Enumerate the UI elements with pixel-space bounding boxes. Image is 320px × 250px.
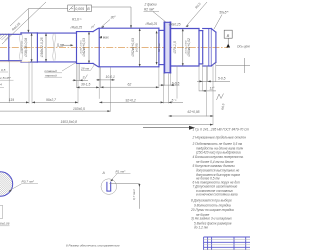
section S4 top/bottom: [77, 31, 94, 33]
svg-text:28 пм: 28 пм: [80, 66, 90, 70]
svg-text:плавный: плавный: [45, 69, 58, 73]
collar left face: [163, 22, 165, 72]
leader from frame right to S5 top: [92, 6, 132, 8]
svg-text:1503,5±0,8: 1503,5±0,8: [61, 120, 78, 124]
section S5 top/bottom: [99, 27, 159, 29]
svg-text:+0,032 +0,015: +0,032 +0,015: [80, 40, 82, 55]
svg-text:∅38,08-0,08: ∅38,08-0,08: [24, 38, 28, 57]
svg-text:R0,7 пм*: R0,7 пм*: [22, 180, 35, 184]
center hole line at right face: [216, 65, 250, 67]
svg-text:90х2,7: 90х2,7: [46, 98, 56, 102]
svg-text:∅70-1,5: ∅70-1,5: [173, 41, 177, 54]
blue outline of detail B: [0, 172, 13, 196]
svg-text:0,5: 0,5: [1, 68, 6, 72]
svg-text:-0,080 -0,157: -0,080 -0,157: [22, 40, 24, 54]
svg-text:√Ra0,25: √Ra0,25: [70, 25, 82, 29]
svg-text:8 Допускается при выборе: 8 Допускается при выборе: [191, 199, 232, 203]
svg-text:4: 4: [0, 83, 2, 87]
datum B box: [224, 30, 232, 38]
left-edge cut labels: [0, 68, 12, 87]
svg-text:(+0,030): (+0,030): [135, 43, 138, 52]
svg-text:10-0,1: 10-0,1: [106, 75, 116, 79]
centerline (axis): [0, 47, 228, 49]
svg-text:0,005: 0,005: [75, 7, 84, 11]
svg-text:92+0,2: 92+0,2: [126, 98, 136, 102]
svg-text:9 Волнистость порядка: 9 Волнистость порядка: [194, 203, 231, 207]
note 5mm inside S3 with arrow: [57, 43, 74, 47]
svg-text:4 Большая конусная поверхность: 4 Большая конусная поверхность: [193, 155, 244, 159]
detail B: hatched section blob bottom-left: [0, 154, 16, 213]
end chamfer top: [211, 29, 216, 33]
tolerance frame 0,005 B: [68, 5, 92, 11]
collar fill: [164, 22, 170, 72]
svg-text:∅50к6+0,02: ∅50к6+0,02: [187, 38, 191, 57]
shaft outline: [0, 22, 216, 72]
svg-text:Ось цент: Ось цент: [237, 44, 250, 48]
chamfer inner vertical at 211.2: [210, 29, 212, 67]
note 2 max at ramp: [99, 35, 109, 39]
thread runout wavy lines in S2: [20, 33, 23, 61]
section S1 left stub top/bottom: [0, 33, 21, 35]
groove profile blue: [106, 182, 111, 191]
right end face: [215, 32, 217, 62]
section S3 top/bottom: [37, 32, 76, 34]
break wavy lines in S3: [53, 33, 56, 60]
section S2 thread top/bottom: [21, 32, 37, 34]
detail A: circle with groove profile: [101, 179, 117, 195]
svg-text:119: 119: [9, 98, 14, 102]
svg-text:+0,018 +0,002: +0,018 +0,002: [185, 40, 187, 55]
technical requirements text block: [190, 127, 249, 229]
S3/S4 shoulder vertical at 76.5: [76, 32, 78, 64]
roughness zigzag near groove: [217, 94, 224, 101]
tan under-edge line left: [0, 61, 30, 63]
vertical at 208.8: [208, 29, 210, 67]
extension lines below shaft: [29, 61, 216, 125]
dia dim S2: [31, 34, 33, 62]
S1/S2 vertical at 9.5: [8, 34, 10, 60]
svg-text:В: В: [227, 33, 230, 38]
dia dim S6 groove: [156, 33, 158, 65]
svg-text:0,7 пах¹: 0,7 пах¹: [132, 189, 136, 200]
S7/groove vertical at 199: [198, 29, 200, 67]
svg-text:√Ra0,25: √Ra0,25: [169, 23, 181, 27]
end chamfer bottom: [211, 62, 216, 66]
svg-text:2 Неуказанные предельные откло: 2 Неуказанные предельные отклон: [192, 136, 247, 140]
dia dim S3: [45, 34, 47, 62]
left edge cut hatch wedge: [0, 34, 11, 41]
relief groove S6 top/bottom: [159, 29, 164, 31]
datum stem and triangle: [227, 38, 229, 44]
dia dim S7: [182, 29, 184, 66]
svg-text:7 Допускается изготовление: 7 Допускается изготовление: [193, 185, 238, 189]
svg-text:1,5×45°: 1,5×45°: [0, 76, 12, 80]
svg-text:62: 62: [128, 83, 132, 87]
note plavny perehod: [45, 69, 58, 77]
svg-text:R1 пм*: R1 пм*: [116, 170, 127, 174]
dia dim S5: [139, 29, 141, 67]
svg-text:3 Побеляемость не более 0,5 пм: 3 Побеляемость не более 0,5 пм: [193, 142, 243, 146]
svg-text:R1,6⁺¹: R1,6⁺¹: [72, 17, 81, 21]
ext line at x 9.2: [8, 62, 10, 103]
title block table: [204, 237, 250, 250]
svg-text:3: 3: [83, 76, 85, 80]
svg-text:12°: 12°: [210, 87, 216, 91]
rotated diameter labels: [22, 37, 191, 57]
collar top/bottom: [164, 21, 170, 23]
leader polyline to tolerance frame: [10, 9, 68, 32]
section S7 top/bottom: [171, 28, 199, 30]
small check on ramp: [91, 24, 95, 28]
svg-text:50±5'*: 50±5'*: [219, 11, 229, 15]
svg-text:52 пах: 52 пах: [157, 43, 161, 52]
svg-text:62+0,95: 62+0,95: [188, 110, 200, 114]
conical ramp S4 to S5: [93, 28, 99, 31]
small box cut at left edge: [0, 206, 3, 219]
collar right face: [169, 22, 171, 72]
diameter dimension lines inside sections (vertical with arrows): [32, 29, 183, 67]
arrowheads dia dims: [31, 33, 33, 36]
svg-text:5 Конусные канавки должны: 5 Конусные канавки должны: [193, 164, 236, 168]
top-left long diagonal leader: [2, 2, 46, 44]
svg-text:3) Не задние 3-и шлицевых: 3) Не задние 3-и шлицевых: [191, 217, 232, 221]
svg-text:∅42к8+0,03: ∅42к8+0,03: [82, 38, 86, 57]
S5/groove shoulder at 158.9: [158, 28, 160, 67]
view A direction arrow: [143, 127, 192, 129]
svg-text:20 Лунки по шарике порядка: 20 Лунки по шарике порядка: [190, 208, 234, 212]
svg-text:30°: 30°: [111, 16, 117, 20]
svg-text:30-1,5: 30-1,5: [81, 83, 91, 87]
svg-text:∅36h12-0,25: ∅36h12-0,25: [40, 37, 44, 57]
svg-text:6±0,06: 6±0,06: [0, 222, 10, 226]
S2/S3 shoulder vertical at 37.4: [36, 33, 38, 62]
R0,5 slanted label with leader to shoulder: [186, 2, 207, 26]
section S9 end top/bottom: [203, 28, 212, 30]
svg-text:2 фаски: 2 фаски: [144, 2, 157, 6]
groove S8: [199, 30, 203, 32]
svg-text:R2 пм*: R2 пм*: [144, 7, 155, 11]
svg-text:√Ra0,25: √Ra0,25: [145, 22, 157, 26]
S5 start vertical at 99.2: [98, 28, 100, 67]
svg-text:1 Гр. II 241...285 НВ ГОСТ 847: 1 Гр. II 241...285 НВ ГОСТ 8479-70 Ст: [193, 127, 250, 131]
leader line from groove to dimension: [109, 183, 139, 185]
svg-text:103±0,5: 103±0,5: [73, 107, 85, 111]
svg-text:6 Размер обеспечить инструмент: 6 Размер обеспечить инструментом: [66, 243, 119, 247]
svg-text:5-0,5: 5-0,5: [218, 76, 226, 80]
svg-text:в конечном состоянии вала: в конечном состоянии вала: [196, 193, 238, 197]
svg-text:до 1,2 пм: до 1,2 пм: [194, 226, 208, 230]
dia dim S4: [88, 32, 90, 63]
svg-text:переход: переход: [45, 73, 57, 77]
